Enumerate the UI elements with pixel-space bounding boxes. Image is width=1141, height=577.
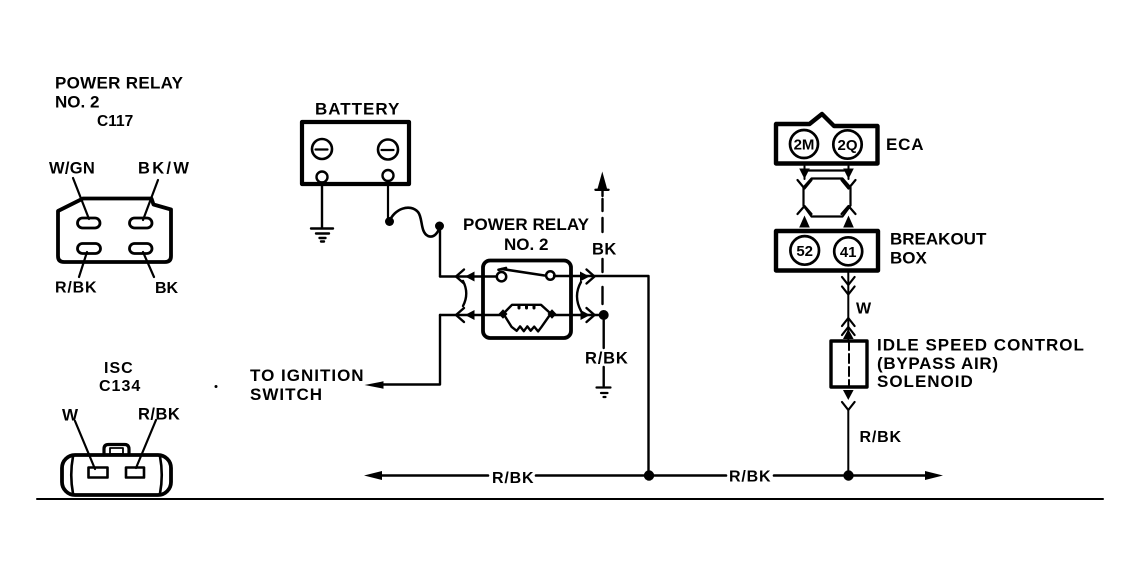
svg-text:C117: C117 <box>97 113 133 130</box>
svg-text:BK: BK <box>155 280 179 297</box>
svg-text:R/BK: R/BK <box>55 280 97 297</box>
svg-text:SWITCH: SWITCH <box>250 385 323 404</box>
svg-text:BOX: BOX <box>890 249 928 268</box>
svg-text:2Q: 2Q <box>837 137 857 154</box>
svg-text:C134: C134 <box>99 378 141 395</box>
svg-text:BK/W: BK/W <box>138 160 191 178</box>
svg-text:ECA: ECA <box>886 135 924 154</box>
svg-text:R/BK: R/BK <box>585 350 629 368</box>
svg-text:ISC: ISC <box>104 360 134 377</box>
svg-text:POWER RELAY: POWER RELAY <box>55 74 184 93</box>
svg-text:41: 41 <box>840 244 857 261</box>
svg-text:(BYPASS AIR): (BYPASS AIR) <box>877 354 999 373</box>
svg-text:POWER RELAY: POWER RELAY <box>463 215 590 234</box>
svg-text:BATTERY: BATTERY <box>315 100 400 119</box>
svg-text:BREAKOUT: BREAKOUT <box>890 230 987 249</box>
svg-text:BK: BK <box>592 241 617 259</box>
svg-text:TO IGNITION: TO IGNITION <box>250 366 365 385</box>
svg-text:R/BK: R/BK <box>860 429 902 446</box>
svg-text:IDLE SPEED CONTROL: IDLE SPEED CONTROL <box>877 336 1085 355</box>
svg-text:W/GN: W/GN <box>49 160 95 178</box>
svg-text:52: 52 <box>796 243 813 260</box>
svg-text:NO. 2: NO. 2 <box>55 93 99 112</box>
svg-text:R/BK: R/BK <box>138 406 180 424</box>
svg-text:R/BK: R/BK <box>492 470 534 487</box>
svg-text:2M: 2M <box>794 137 815 154</box>
svg-text:W: W <box>856 301 872 318</box>
svg-text:SOLENOID: SOLENOID <box>877 372 974 391</box>
svg-text:R/BK: R/BK <box>729 469 771 486</box>
svg-text:NO. 2: NO. 2 <box>504 235 548 254</box>
